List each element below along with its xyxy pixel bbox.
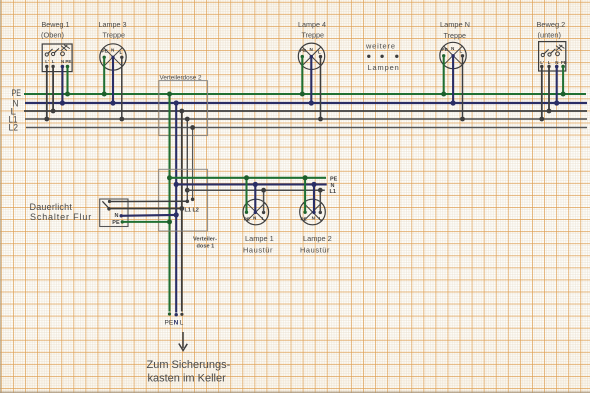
svg-text:L': L' [45, 59, 49, 64]
svg-text:L: L [460, 49, 463, 54]
svg-text:L': L' [540, 60, 544, 65]
svg-text:L: L [52, 59, 55, 64]
svg-text:PE: PE [244, 216, 250, 221]
wire switch output to L1 tap [110, 200, 188, 202]
wire riser N (Verteilerdose 2 to Keller) [174, 100, 179, 312]
node PE junction to house lamps [167, 175, 172, 180]
wire tap L2 (bus L2 spare dead-end) [190, 125, 195, 201]
lamp Lampe 3 Treppe [99, 20, 127, 70]
junction box Verteilerdose 1 [159, 169, 217, 249]
svg-text:Zum Sicherungs-: Zum Sicherungs- [147, 359, 231, 371]
wire bus N (blue) [25, 102, 587, 104]
wire Lampe 3 pin L to bus L1 [119, 57, 124, 121]
wire switch PE to riser PE [122, 219, 172, 224]
svg-text:N: N [174, 319, 179, 326]
svg-text:Dauerlicht: Dauerlicht [30, 202, 73, 212]
svg-text:PE: PE [12, 88, 22, 98]
wire Lampe 4 pin L to bus L1 [318, 57, 323, 122]
node weitere Lampen (placeholder dots) [365, 42, 400, 73]
lamp Lampe 4 Treppe [298, 20, 326, 70]
wire Lampe 4 pin N to bus N [309, 57, 314, 106]
wire Lampe 1 pin L [261, 188, 266, 213]
wire bus L2 [26, 127, 587, 129]
wire tap L1 (bus L1 down into Verteilerdose 1) [185, 117, 190, 204]
wire Lampe 4 pin PE to bus PE [300, 57, 305, 97]
svg-text:kasten im Keller: kasten im Keller [148, 373, 227, 385]
wire bus L1 [25, 118, 587, 120]
bus L1 label [9, 115, 18, 125]
svg-text:(unten): (unten) [538, 31, 561, 40]
wire Lampe N pin L to bus L1 [460, 56, 465, 122]
svg-text:L: L [120, 50, 123, 55]
svg-text:L: L [262, 216, 265, 221]
svg-text:PE: PE [165, 320, 174, 327]
switch Dauerlicht Schalter Flur [30, 199, 129, 227]
wire Lampe 2 pin N [311, 182, 316, 213]
svg-text:Treppe: Treppe [444, 31, 467, 40]
wire Beweg.2 pin L to bus L [547, 67, 552, 114]
svg-text:PE: PE [102, 49, 108, 54]
svg-text:L2: L2 [9, 123, 19, 133]
wire Beweg.2 pin N to bus N [554, 67, 559, 106]
bus L2 label [9, 123, 19, 133]
wire riser PE (Verteilerdose 2 to Keller) [167, 92, 172, 312]
svg-text:Haustür: Haustür [243, 246, 273, 255]
wire L1 feed to Haustuer lamps [187, 189, 336, 195]
wire riser L (Verteilerdose 2 to Keller) [179, 109, 184, 312]
svg-text:PE: PE [442, 47, 448, 52]
arrow to fuse box [179, 332, 188, 351]
lamp Lampe 2 Haustuer [300, 199, 332, 254]
svg-text:Lampe 2: Lampe 2 [303, 234, 332, 243]
lamp Lampe N Treppe [440, 20, 470, 69]
svg-text:PE: PE [561, 60, 567, 65]
node L1 L2 labels in Verteilerdose 1 [185, 208, 199, 214]
svg-text:Beweg.2: Beweg.2 [537, 20, 566, 29]
svg-text:dose 1: dose 1 [197, 244, 215, 250]
svg-text:Beweg.1: Beweg.1 [42, 20, 70, 29]
wire Lampe 1 pin N [253, 182, 258, 213]
svg-text:Haustür: Haustür [300, 246, 330, 255]
node N junction to house lamps [174, 182, 179, 187]
wire Beweg.2 pin PE to bus PE [561, 67, 566, 97]
svg-text:Lampen: Lampen [368, 63, 400, 72]
svg-text:Verteiler-: Verteiler- [193, 237, 217, 243]
bus N label [13, 99, 19, 109]
svg-text:N: N [555, 60, 558, 65]
svg-text:L: L [318, 49, 321, 54]
svg-text:L1 L2: L1 L2 [185, 208, 199, 214]
wire bus PE (green) [24, 93, 586, 95]
svg-text:Schalter Flur: Schalter Flur [30, 212, 92, 222]
svg-text:PE: PE [112, 220, 120, 226]
bus L label [11, 107, 17, 117]
wire Lampe 2 pin PE [303, 175, 308, 212]
node PE N L cable ends to cellar [165, 312, 184, 326]
svg-text:Treppe: Treppe [302, 31, 325, 40]
wire N feed to Haustuer lamps [176, 183, 334, 189]
svg-text:L: L [180, 320, 184, 327]
wire switch N to riser N [121, 212, 179, 217]
wire PE feed to Haustuer lamps [170, 177, 338, 183]
svg-text:N: N [115, 213, 119, 219]
motion sensor Beweg.1 (Oben) [41, 20, 72, 72]
wire Beweg.1 pin L to bus L [51, 67, 56, 114]
wire Lampe N pin PE to bus PE [441, 56, 446, 97]
wire Lampe 1 pin PE [244, 175, 249, 212]
wire Beweg.1 pin PE to bus PE [65, 67, 70, 97]
svg-text:L: L [319, 216, 322, 221]
svg-text:Treppe: Treppe [103, 31, 126, 40]
lamp Lampe 1 Haustuer [243, 199, 274, 254]
wire Beweg.1 pin L' to bus L1 [44, 67, 49, 122]
wire Lampe N pin N to bus N [451, 56, 456, 106]
bus PE label [12, 88, 22, 98]
svg-text:N: N [61, 59, 64, 64]
svg-text:(Oben): (Oben) [41, 31, 64, 40]
wire Lampe 3 pin PE to bus PE [102, 57, 107, 96]
wire Beweg.1 pin N to bus N [60, 67, 65, 106]
svg-text:PE: PE [300, 48, 306, 53]
svg-text:Lampe 4: Lampe 4 [298, 20, 326, 29]
svg-text:PE: PE [301, 216, 307, 221]
wire switch input from riser L [109, 206, 184, 211]
wire Lampe 3 pin N to bus N [110, 57, 115, 105]
svg-text:weitere: weitere [365, 42, 396, 51]
svg-text:Lampe 1: Lampe 1 [245, 234, 274, 243]
svg-text:Lampe N: Lampe N [440, 20, 470, 29]
wire Beweg.2 pin L' to bus L1 [539, 67, 544, 122]
wire Lampe 2 pin L [318, 188, 323, 213]
wire bus L [24, 110, 587, 112]
svg-text:PE: PE [330, 177, 338, 183]
label Zum Sicherungskasten im Keller [147, 359, 231, 385]
motion sensor Beweg.2 (unten) [537, 20, 567, 71]
svg-text:N: N [331, 183, 335, 189]
node L1 junction to house lamps [185, 188, 190, 193]
svg-text:Lampe 3: Lampe 3 [99, 20, 127, 29]
svg-text:L1: L1 [330, 189, 336, 195]
svg-text:PE: PE [65, 59, 71, 64]
junction box Verteilerdose 2 [159, 75, 208, 136]
svg-text:L: L [548, 60, 551, 65]
